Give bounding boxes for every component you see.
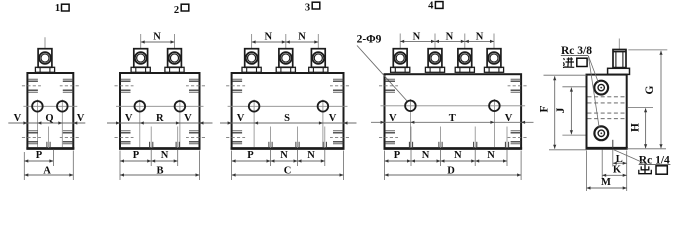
title 2-port label (174, 4, 189, 16)
dimension P block1 (24, 150, 53, 163)
block4 top N dimensions (400, 31, 494, 43)
svg-text:N: N (476, 31, 484, 42)
block4 fitting port 2 (425, 34, 444, 73)
block1 fitting port (35, 37, 54, 72)
svg-text:R: R (156, 113, 164, 124)
svg-text:P: P (247, 150, 254, 161)
block2 right mounting hole (175, 101, 186, 112)
block3 left mounting hole (249, 101, 260, 112)
side view extension lines below (587, 150, 627, 192)
dimension P block4 (385, 150, 412, 163)
svg-text:V: V (14, 113, 22, 124)
Rc3/8 inlet label (561, 45, 592, 57)
svg-text:2-Φ9: 2-Φ9 (357, 34, 382, 46)
svg-text:V: V (77, 113, 85, 124)
svg-text:P: P (133, 150, 140, 161)
block2 fitting port 2 (165, 34, 184, 72)
dimension N block3 bottom 1 (271, 150, 298, 163)
block4 hole center line horizontal (381, 105, 526, 107)
block4 bottom outlet hole 2 (439, 127, 442, 149)
bottom edge extension right (627, 148, 666, 150)
svg-text:B: B (156, 166, 163, 177)
svg-text:D: D (447, 166, 455, 177)
inlet leader line to lower hole (588, 56, 599, 128)
dimension P block3 (232, 150, 271, 163)
block4 left mounting hole (405, 101, 416, 112)
dimension K hole position (602, 165, 627, 177)
block2 left mounting hole (135, 101, 146, 112)
dimension C block3 (232, 166, 344, 177)
block3 extension lines below (232, 150, 344, 181)
block1 left lower side port (22, 131, 41, 144)
block4 left lower side port (379, 131, 398, 144)
block2 left lower side port (115, 131, 134, 144)
G dimension extension top (628, 49, 667, 51)
title 4-port label (428, 1, 443, 12)
block1 bottom outlet hole (47, 127, 50, 149)
side view body outline (587, 75, 627, 149)
J dimension extension top (562, 86, 585, 88)
block2 extension lines below (120, 150, 200, 181)
svg-text:4: 4 (428, 1, 434, 12)
block4 right lower side port (508, 131, 527, 144)
svg-text:K: K (613, 165, 622, 176)
svg-text:L: L (616, 154, 623, 165)
block4 body outline (385, 74, 522, 148)
dimension P block2 (120, 150, 151, 163)
svg-text:Q: Q (45, 113, 53, 124)
block1 right hole vertical center line (61, 100, 63, 148)
dimension L outlet position (613, 154, 627, 165)
block2 bottom outlet hole 2 (176, 127, 179, 149)
block3 right mounting hole (318, 101, 329, 112)
block3 top N dimensions (252, 32, 319, 44)
side view lower inlet hole (594, 126, 608, 140)
block3 left upper side port (226, 79, 245, 92)
block4 bottom outlet hole 3 (474, 127, 477, 149)
side view hidden passage dashed lines lower (588, 113, 626, 119)
block2 V-R-V dimension line (107, 113, 213, 124)
dimension J hole spacing (555, 88, 573, 135)
block3 hole center line horizontal (228, 105, 348, 107)
title 1-port label (55, 3, 69, 14)
svg-text:N: N (487, 150, 495, 161)
svg-text:A: A (43, 166, 51, 177)
block1 right upper side port (60, 79, 79, 92)
block4 bottom outlet hole 1 (409, 127, 412, 149)
block1 left hole vertical center line (36, 100, 38, 148)
chu-kou outlet chinese label (639, 165, 668, 175)
block1 right lower side port (60, 131, 79, 144)
svg-text:P: P (36, 150, 43, 161)
block1 extension lines below (24, 150, 73, 181)
side view upper inlet hole (594, 81, 608, 95)
svg-text:N: N (413, 31, 421, 42)
2-phi9 leader line (357, 46, 408, 102)
block2 fitting port 1 (131, 34, 150, 72)
block1 left mounting hole (32, 101, 43, 112)
block1 body outline (27, 73, 73, 149)
dimension N block4 bottom 3 (475, 150, 507, 163)
block4 left hole vertical center line (409, 99, 411, 147)
svg-text:N: N (265, 32, 273, 43)
dimension N block3 bottom 2 (298, 150, 325, 163)
svg-text:T: T (449, 113, 456, 124)
block3 bottom outlet hole 3 (323, 127, 326, 149)
block2 left hole vertical center line (139, 100, 141, 148)
outlet leader line (613, 149, 648, 164)
block2 right lower side port (186, 131, 205, 144)
block4 extension lines below (385, 150, 522, 181)
block4 fitting port 3 (455, 34, 474, 73)
side view hidden passage dashed lines upper (588, 97, 626, 103)
dimension A block1 (24, 166, 73, 177)
block2 bottom outlet hole 1 (150, 127, 153, 149)
svg-text:N: N (454, 150, 462, 161)
dimension F side view height (538, 76, 556, 149)
svg-text:C: C (284, 166, 292, 177)
svg-text:V: V (505, 113, 513, 124)
block2 hole center line horizontal (116, 105, 204, 107)
dimension M side view depth (587, 177, 627, 189)
svg-text:N: N (422, 150, 430, 161)
block1 V-Q-V dimension line (8, 113, 85, 124)
block3 right hole vertical center line (322, 100, 324, 148)
block4 right mounting hole (489, 101, 500, 112)
block2 body outline (120, 73, 200, 149)
svg-text:V: V (125, 113, 133, 124)
block3 left hole vertical center line (253, 100, 255, 148)
dimension N block2 bottom (151, 150, 178, 163)
svg-text:3: 3 (305, 3, 310, 14)
dimension N block4 bottom 1 (411, 150, 441, 163)
svg-text:J: J (555, 107, 567, 113)
svg-text:N: N (298, 32, 306, 43)
svg-text:M: M (601, 177, 611, 188)
block2 left upper side port (115, 79, 134, 92)
F dimension extension top (544, 74, 587, 76)
block3 fitting port 3 (309, 34, 328, 72)
svg-text:P: P (394, 150, 401, 161)
block4 right upper side port (508, 79, 527, 92)
block2 right hole vertical center line (179, 100, 181, 148)
F dimension extension bottom (549, 149, 587, 151)
block4 left upper side port (379, 79, 398, 92)
svg-text:V: V (237, 113, 245, 124)
block1 hole center line horizontal (23, 105, 77, 107)
block4 right hole vertical center line (493, 99, 495, 147)
block1 left upper side port (22, 79, 41, 92)
block3 bottom outlet hole 2 (296, 127, 299, 149)
svg-text:H: H (629, 123, 641, 132)
block2 right upper side port (186, 79, 205, 92)
block3 fitting port 1 (242, 34, 261, 72)
J dimension extension bottom (562, 134, 585, 136)
svg-text:F: F (538, 105, 550, 112)
svg-text:G: G (644, 85, 656, 94)
block3 fitting port 2 (276, 34, 295, 72)
svg-text:N: N (280, 150, 288, 161)
block3 V-S-V dimension line (220, 113, 357, 124)
svg-text:N: N (161, 150, 169, 161)
block3 right upper side port (330, 79, 349, 92)
dimension D block4 (385, 166, 522, 177)
block4 fitting port 4 (484, 34, 503, 73)
svg-text:N: N (446, 31, 454, 42)
block4 bottom outlet hole 4 (505, 127, 508, 149)
svg-text:V: V (389, 113, 397, 124)
svg-text:V: V (184, 113, 192, 124)
svg-text:2: 2 (174, 5, 179, 16)
block1 right mounting hole (57, 101, 68, 112)
svg-text:N: N (153, 32, 161, 43)
svg-text:N: N (307, 150, 315, 161)
dimension H (629, 108, 647, 148)
dimension N block4 bottom 2 (441, 150, 476, 163)
block4 V-T-V dimension line (371, 113, 534, 124)
block3 right lower side port (330, 131, 349, 144)
block3 left lower side port (226, 131, 245, 144)
block4 fitting port 1 (391, 34, 410, 73)
svg-text:1: 1 (55, 3, 60, 14)
block3 bottom outlet hole 1 (269, 127, 272, 149)
jin-kou inlet chinese label (563, 57, 587, 67)
inlet leader line to upper hole (588, 56, 598, 83)
title 3-port label (305, 2, 320, 13)
side view outlet hidden hole line (612, 140, 614, 149)
H dimension extension top (628, 107, 653, 109)
svg-text:V: V (329, 113, 337, 124)
svg-text:S: S (284, 113, 290, 124)
dimension G overall height with fitting (644, 51, 663, 149)
side view top fitting (608, 39, 630, 75)
dimension B block2 (120, 166, 200, 177)
block2 top N dimension (141, 32, 175, 44)
block3 body outline (232, 73, 344, 149)
